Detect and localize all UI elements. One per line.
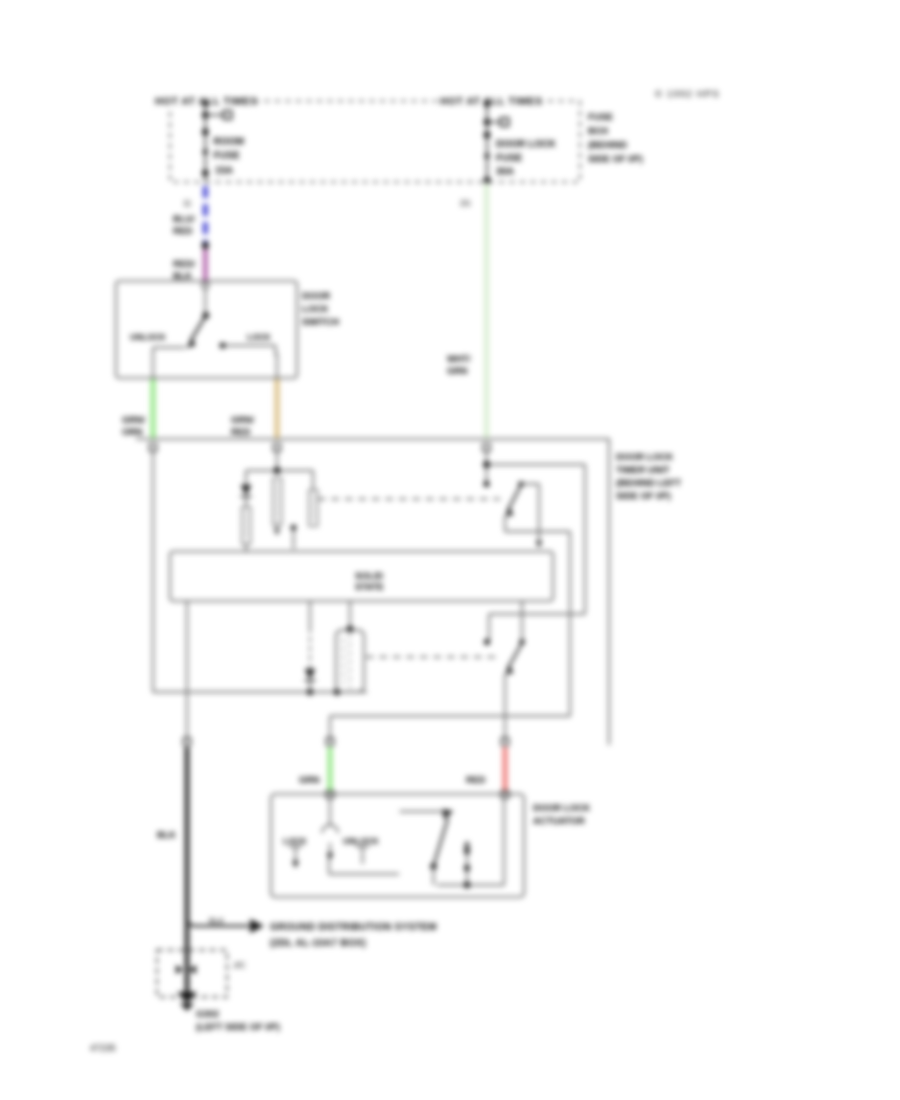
- actuator terminal GRN: [327, 791, 334, 798]
- svg-text:SIDE OF I/P): SIDE OF I/P): [616, 490, 671, 501]
- relay coil K2: [336, 601, 364, 692]
- junction on GRN/RED branch: [274, 467, 281, 474]
- label GROUND DISTRIBUTION SYSTEM: [270, 922, 437, 949]
- fuse box (dashed outline, behind left side of I/P): [170, 101, 580, 182]
- svg-text:15A: 15A: [215, 166, 233, 177]
- wire WHT/GRN feed inside timer: [487, 451, 586, 640]
- wire GRN/RED (switch to timer): [275, 379, 280, 438]
- svg-text:HOT AT ALL TIMES: HOT AT ALL TIMES: [440, 97, 543, 108]
- svg-text:RED/: RED/: [173, 259, 195, 269]
- junction J1: [307, 689, 313, 695]
- svg-text:SIDE OF I/P): SIDE OF I/P): [588, 153, 643, 164]
- svg-text:GRN: GRN: [299, 775, 320, 785]
- door lock switch S1 (box): [116, 281, 297, 378]
- svg-text:2G: 2G: [460, 199, 471, 208]
- junction J2: [334, 689, 340, 695]
- svg-text:UNLOCK: UNLOCK: [130, 332, 166, 342]
- svg-text:(2DL AL-10A7 BOX): (2DL AL-10A7 BOX): [270, 938, 366, 949]
- svg-text:DOOR LOCK: DOOR LOCK: [616, 451, 674, 462]
- svg-text:G302: G302: [196, 1008, 219, 1019]
- junction on switch feed: [202, 242, 209, 249]
- label fuse box location: [588, 111, 643, 164]
- label DOOR LOCK SWITCH: [302, 290, 339, 327]
- svg-text:BLK: BLK: [173, 271, 192, 281]
- svg-text:DOOR LOCK: DOOR LOCK: [533, 802, 591, 813]
- dashed actuation line K2: [366, 656, 501, 658]
- terminal 5 (RED output): [502, 738, 509, 745]
- door lock timer unit U1 (box, open left/bottom): [136, 439, 609, 745]
- label HOT AT ALL TIMES (left feed): [153, 94, 258, 108]
- door lock switch internals (lever and contacts): [153, 288, 277, 378]
- svg-text:BLU/: BLU/: [173, 214, 195, 224]
- upper relay switch K1 contacts: [505, 481, 571, 716]
- terminal 4 (GRN output): [327, 738, 334, 745]
- label DOOR LOCK TIMER UNIT: [616, 451, 681, 501]
- label DOOR LOCK ACTUATOR: [533, 802, 591, 826]
- wire GRN/ORN (switch to timer): [151, 379, 156, 438]
- wire BLU/RED (dashed blue segment from room fuse): [203, 186, 208, 243]
- dashed actuation line K1: [318, 498, 500, 500]
- svg-text:LOCK: LOCK: [247, 332, 271, 342]
- junction J3: [483, 461, 490, 468]
- wire RED (timer to actuator): [503, 747, 508, 792]
- wire to GRN output terminal: [330, 716, 570, 740]
- fuse F1 ROOM FUSE 15A: [202, 101, 244, 183]
- wire GRN (timer to actuator): [328, 747, 333, 792]
- svg-text:11: 11: [183, 199, 192, 208]
- actuator motor element: [464, 841, 471, 889]
- svg-text:(BEHIND: (BEHIND: [588, 139, 627, 150]
- svg-text:BLK: BLK: [157, 830, 176, 840]
- svg-text:© 1992 HPS: © 1992 HPS: [655, 89, 720, 100]
- door lock actuator M1 (box): [271, 794, 524, 897]
- svg-text:SOLID: SOLID: [355, 571, 383, 581]
- svg-text:ROOM: ROOM: [214, 137, 244, 148]
- ground G302: [177, 992, 197, 1011]
- inline connector symbol: [176, 965, 196, 974]
- svg-text:J/C: J/C: [233, 960, 246, 970]
- svg-text:FUSE: FUSE: [588, 111, 613, 122]
- diode D1: [241, 485, 252, 497]
- terminal 2 (GRN/RED input): [274, 444, 281, 451]
- actuator motor switch: [400, 799, 505, 885]
- svg-text:GRN/: GRN/: [231, 415, 254, 425]
- svg-text:RED: RED: [173, 226, 193, 236]
- label BLU/RED: [173, 214, 195, 236]
- terminal 1 (GRN/ORN input): [150, 444, 157, 451]
- svg-text:WHT/: WHT/: [447, 354, 471, 364]
- terminal 6 (BLK output): [184, 738, 191, 745]
- svg-text:RED: RED: [231, 427, 251, 437]
- label GRN/RED: [231, 415, 254, 437]
- wire WHT/GRN (door lock fuse to timer): [484, 184, 488, 438]
- arrow into solid state (coil lead): [274, 529, 281, 536]
- svg-text:DOOR: DOOR: [302, 290, 330, 301]
- solid state module: [170, 552, 553, 602]
- wire (GRN/ORN return bus inside timer): [153, 451, 367, 692]
- label GRN/ORN: [122, 415, 145, 437]
- terminal 3 (WHT/GRN input): [483, 444, 490, 451]
- svg-text:ORN: ORN: [122, 427, 143, 437]
- junction coil top: [347, 626, 353, 632]
- actuator position switch (lock/unlock): [289, 798, 399, 874]
- svg-text:FUSE: FUSE: [496, 153, 523, 164]
- svg-text:LOCK: LOCK: [283, 836, 307, 846]
- svg-text:DOOR LOCK: DOOR LOCK: [496, 139, 556, 150]
- label WHT/GRN: [447, 354, 471, 376]
- junction connector (dashed box): [157, 950, 227, 997]
- svg-text:GRN: GRN: [447, 366, 468, 376]
- diode D2: [305, 669, 316, 681]
- svg-text:SWITCH: SWITCH: [302, 316, 339, 327]
- label HOT AT ALL TIMES (right feed): [437, 94, 547, 108]
- svg-text:(LEFT SIDE OF I/P): (LEFT SIDE OF I/P): [196, 1021, 280, 1032]
- wire BLK drop from solid state: [186, 601, 188, 740]
- svg-text:(BEHIND LEFT: (BEHIND LEFT: [616, 477, 681, 488]
- label SOLID STATE: [355, 571, 384, 592]
- svg-text:GRN/: GRN/: [122, 415, 145, 425]
- svg-text:GROUND DISTRIBUTION SYSTEM: GROUND DISTRIBUTION SYSTEM: [270, 922, 437, 933]
- upper relay K1 (coil network): [242, 451, 318, 551]
- connector ring on switch case: [202, 282, 208, 288]
- svg-text:BLK: BLK: [209, 917, 225, 926]
- lower relay K2 (resistor + diode branch): [309, 601, 311, 692]
- label PPL wire: [173, 259, 195, 281]
- svg-text:47235: 47235: [90, 1043, 116, 1053]
- svg-text:FUSE: FUSE: [214, 151, 241, 162]
- svg-text:STATE: STATE: [355, 582, 384, 592]
- fuse F2 DOOR LOCK FUSE 30A: [484, 100, 556, 183]
- node stub into solid state: [291, 525, 297, 549]
- svg-text:LOCK: LOCK: [302, 303, 329, 314]
- wire BLK (to ground): [187, 747, 249, 996]
- svg-text:ACTUATOR: ACTUATOR: [533, 815, 585, 826]
- contact node upper switch: [484, 481, 490, 487]
- lower relay switch K2 contacts: [484, 601, 525, 740]
- actuator terminal RED: [502, 791, 509, 798]
- svg-text:UNLOCK: UNLOCK: [343, 836, 379, 846]
- svg-text:30A: 30A: [496, 167, 514, 178]
- svg-text:TIMER UNIT: TIMER UNIT: [616, 464, 670, 475]
- wire PPL (to door lock switch): [203, 249, 208, 282]
- svg-text:BOX: BOX: [588, 125, 609, 136]
- svg-text:RED: RED: [466, 775, 486, 785]
- arrow to ground distribution: [250, 919, 264, 933]
